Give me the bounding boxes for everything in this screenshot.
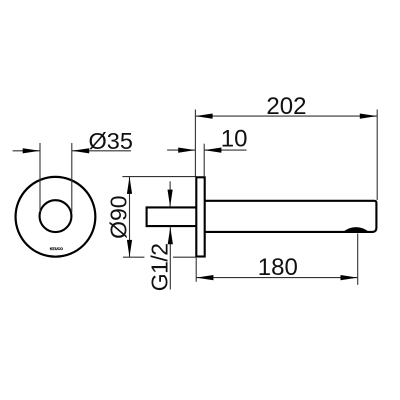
dim 202: left extension line — [194, 110, 196, 177]
dim 10: left stub + arrow — [167, 149, 195, 151]
dim Ø90: vertical dimension line — [129, 177, 131, 258]
supply pipe G1/2 bottom edge — [147, 225, 197, 227]
dim Ø35: right line — [72, 150, 131, 152]
dim Ø35: right extension line — [71, 143, 73, 212]
dim G1/2: lower arrow (up) — [168, 227, 173, 244]
svg-text:10: 10 — [221, 126, 248, 153]
dim G1/2: upper arrow (down) — [168, 190, 173, 207]
wall plate (side view) — [196, 177, 204, 256]
dim 180: left extension line — [195, 258, 197, 282]
dim 180: right extension line — [357, 234, 359, 285]
dim G1/2: upper stub — [169, 181, 171, 206]
escutcheon outer circle (front view) — [16, 177, 96, 257]
svg-text:KEUCO: KEUCO — [50, 247, 63, 251]
dim 180: left arrow — [196, 275, 213, 280]
spout body (side view) — [205, 201, 377, 232]
dim Ø35: left arrow — [23, 148, 40, 153]
dim Ø90: top extension line — [122, 176, 196, 178]
dim 202: dimension line — [195, 115, 377, 117]
dim Ø90: bottom extension line left segment — [123, 256, 144, 258]
dim Ø35: left stub line — [13, 150, 40, 152]
dim 202: left arrow — [195, 114, 212, 119]
spout base inner circle (front view) — [40, 200, 72, 232]
aerator bump — [343, 227, 370, 233]
dim Ø90: bottom arrow — [127, 240, 132, 257]
dim 10: right extension line — [203, 144, 205, 177]
dim G1/2: lower leader — [169, 227, 171, 289]
dim 180: right arrow — [341, 275, 358, 280]
dim 202: right extension line — [376, 110, 378, 201]
dim Ø35: right arrow — [72, 148, 89, 153]
dim Ø35: left extension line — [39, 143, 41, 212]
svg-text:Ø35: Ø35 — [89, 128, 133, 154]
dim Ø90: top arrow — [127, 177, 132, 194]
dim 180: dimension line — [196, 277, 358, 279]
supply pipe G1/2 left edge — [146, 206, 148, 227]
svg-text:Ø90: Ø90 — [106, 195, 132, 238]
svg-text:G1/2: G1/2 — [147, 243, 173, 291]
supply pipe G1/2 top edge — [147, 206, 197, 208]
svg-text:180: 180 — [258, 254, 298, 281]
svg-text:202: 202 — [266, 93, 306, 120]
dim Ø90: bottom extension line right segment — [173, 256, 196, 258]
dim 202: right arrow — [360, 114, 377, 119]
dim 10: right stub + arrow — [204, 149, 246, 151]
